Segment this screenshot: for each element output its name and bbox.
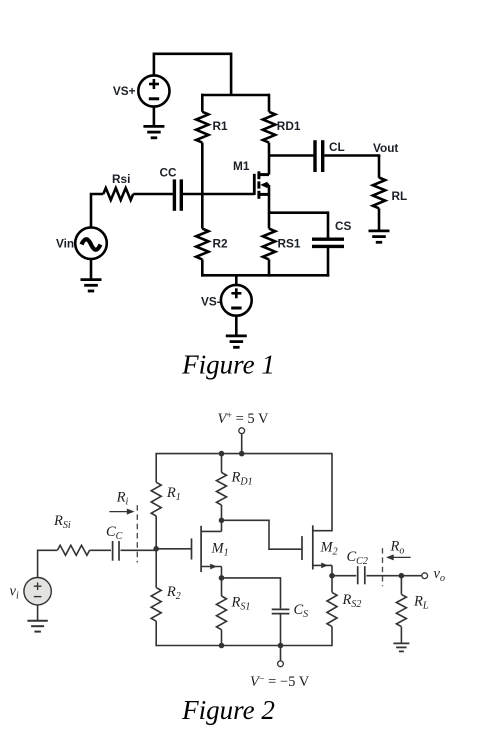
resistor RL fig2 [396,576,406,644]
label CS [335,219,352,233]
resistor RS1 [263,213,275,277]
label CL [329,140,345,154]
capacitor CC2 fig2 [358,566,365,584]
label RS2 fig2 [342,592,362,610]
wire gate node to R2 [155,549,157,588]
wire M1 source down [268,185,271,214]
wire RL to ground [378,208,381,231]
wire M1 gate lead [156,548,191,550]
label RSi fig2 [53,513,71,531]
label M1 fig2 [211,541,229,559]
svg-text:V+ = 5 V: V+ = 5 V [218,410,270,427]
dashed line Ri [136,505,138,562]
ground below VS- [226,336,247,347]
ground below Vin [81,280,102,291]
node dot RL top [399,573,405,579]
svg-text:R2: R2 [213,237,229,251]
resistor R2 fig2 [151,588,161,622]
label Ro [390,539,405,557]
node dot RD1 top [219,451,225,457]
transistor M1 fig2 [192,520,222,572]
label RS1 fig2 [231,595,251,613]
wire coupling M1 drain to M2 gate [222,520,302,549]
wire V- stub [280,646,282,661]
resistor R1 [196,112,208,143]
wire RD1 bottom to drain node [268,143,271,175]
wire VS+ to ground [153,107,156,127]
label VS- [201,295,221,309]
label RS1 [278,237,301,251]
resistor RL [373,178,385,209]
wire vi to RSi [38,550,58,577]
node dot M1 source [219,575,225,581]
wire R1 bottom to gate node [201,143,204,196]
wire RD1 top fig2 [221,454,223,473]
svg-text:VS-: VS- [201,295,221,309]
wire RD1 top [268,94,271,112]
label CS fig2 [294,602,309,620]
capacitor CS fig2 [272,609,290,646]
wire Rsi to CC [133,193,173,196]
wire M2 drain to top rail [313,453,332,531]
wire source node to CS fig2 [222,578,281,609]
caption Figure 1 [181,350,275,380]
wire left column to R1 [155,453,157,482]
svg-text:VS+: VS+ [113,84,136,98]
label RD1 [277,119,301,133]
wire CL to Vout [324,154,380,157]
resistor RD1 [263,112,275,143]
svg-text:RS1: RS1 [278,237,301,251]
wire R1 top [201,94,204,112]
caption Figure 2 [181,695,275,725]
svg-text:CL: CL [329,140,345,154]
svg-text:CS: CS [335,219,352,233]
label RD1 fig2 [231,470,253,488]
node dot M2 source [329,573,335,579]
wire R2 to bottom rail [155,621,157,646]
label R2 fig2 [166,584,181,602]
source Vin [75,227,107,259]
wire RD1 to drain dot [221,505,223,520]
ground below RL [369,231,390,242]
resistor RSi fig2 [57,545,89,555]
svg-text:Figure 2: Figure 2 [181,695,275,725]
node dot V- junction [278,643,284,649]
capacitor CC fig2 [113,541,119,561]
arrow Ro [386,554,411,560]
svg-text:M1: M1 [233,159,250,173]
label Ri [116,490,129,508]
svg-text:RD1: RD1 [277,119,301,133]
voltage source VS+ [138,75,169,106]
wire source node to CS [269,213,328,238]
arrow Ri [109,509,134,515]
label R1 [213,119,229,133]
wire gate node to M1 gate [202,193,254,196]
label vi [10,584,19,602]
resistor RS1 fig2 [217,578,227,646]
wire bottom rail fig2 [156,645,333,647]
label Rsi [112,172,130,186]
wire R1-RD1 top rail [201,94,270,97]
label CC [160,166,178,180]
ground below VS+ [143,126,164,137]
resistor RS2 fig2 [327,576,337,647]
label RL [392,189,408,203]
svg-text:Figure 1: Figure 1 [181,350,275,380]
terminal V- supply [278,661,284,667]
wire VS- to ground [235,316,238,336]
wire M1 source down fig2 [221,567,223,578]
label M1 [233,159,250,173]
wire drain node to CL [269,154,314,157]
ground below RL fig2 [393,643,409,651]
ground below vi [27,621,47,632]
svg-text:Vin: Vin [56,237,74,251]
wire CC to gate node fig2 [121,549,157,551]
label Vin [56,237,74,251]
wire CC to gate node [183,193,204,196]
label M2 fig2 [320,540,338,558]
transistor M2 fig2 [302,525,332,569]
svg-text:RL: RL [392,189,408,203]
wire vi to ground [37,605,39,621]
capacitor CC [174,179,181,210]
label R1 fig2 [166,485,181,503]
capacitor CS [312,239,344,276]
svg-text:Vout: Vout [373,141,398,155]
label V- = -5 V [250,673,310,690]
terminal vo [422,573,428,579]
label R2 [213,237,229,251]
node dot V+ junction [239,451,245,457]
source vi [24,578,51,605]
label VS+ [113,84,136,98]
label CC fig2 [106,524,123,542]
node dot M1 gate [153,546,159,552]
svg-text:CC: CC [160,166,178,180]
svg-text:Rsi: Rsi [112,172,130,186]
wire M2 source to CC2 [332,575,356,577]
wire Vin to ground [90,259,93,280]
wire top rail fig2 [156,453,333,455]
terminal V+ supply [239,428,245,434]
capacitor CL [315,140,323,172]
wire V+ to top rail [241,434,243,454]
wire R1 to gate node [155,516,157,549]
dashed line Ro [382,548,384,586]
node dot RS1 bottom [219,643,225,649]
label vo [434,566,445,584]
wire M2 source down [331,565,333,575]
svg-text:R1: R1 [213,119,229,133]
voltage source VS- [221,285,252,316]
label Vout [373,141,398,155]
wire bottom rail fig1 [201,274,329,277]
transistor M1 [254,171,269,199]
label RL fig2 [413,594,429,612]
label CC2 fig2 [347,549,368,567]
label V+ = 5 V [218,410,270,427]
resistor R2 [196,194,208,277]
resistor RD1 fig2 [217,473,227,506]
node dot M1 drain [219,518,225,524]
resistor Rsi [103,188,133,200]
resistor R1 fig2 [151,482,161,516]
wire CC2 to vo [366,575,422,577]
wire top rail from VS+ to R1/RD1 rail [154,53,231,96]
wire Vout to RL [378,156,381,178]
wire Vin to Rsi [91,194,103,227]
wire RSi to CC fig2 [90,549,111,551]
wire rail to VS- [235,275,238,285]
